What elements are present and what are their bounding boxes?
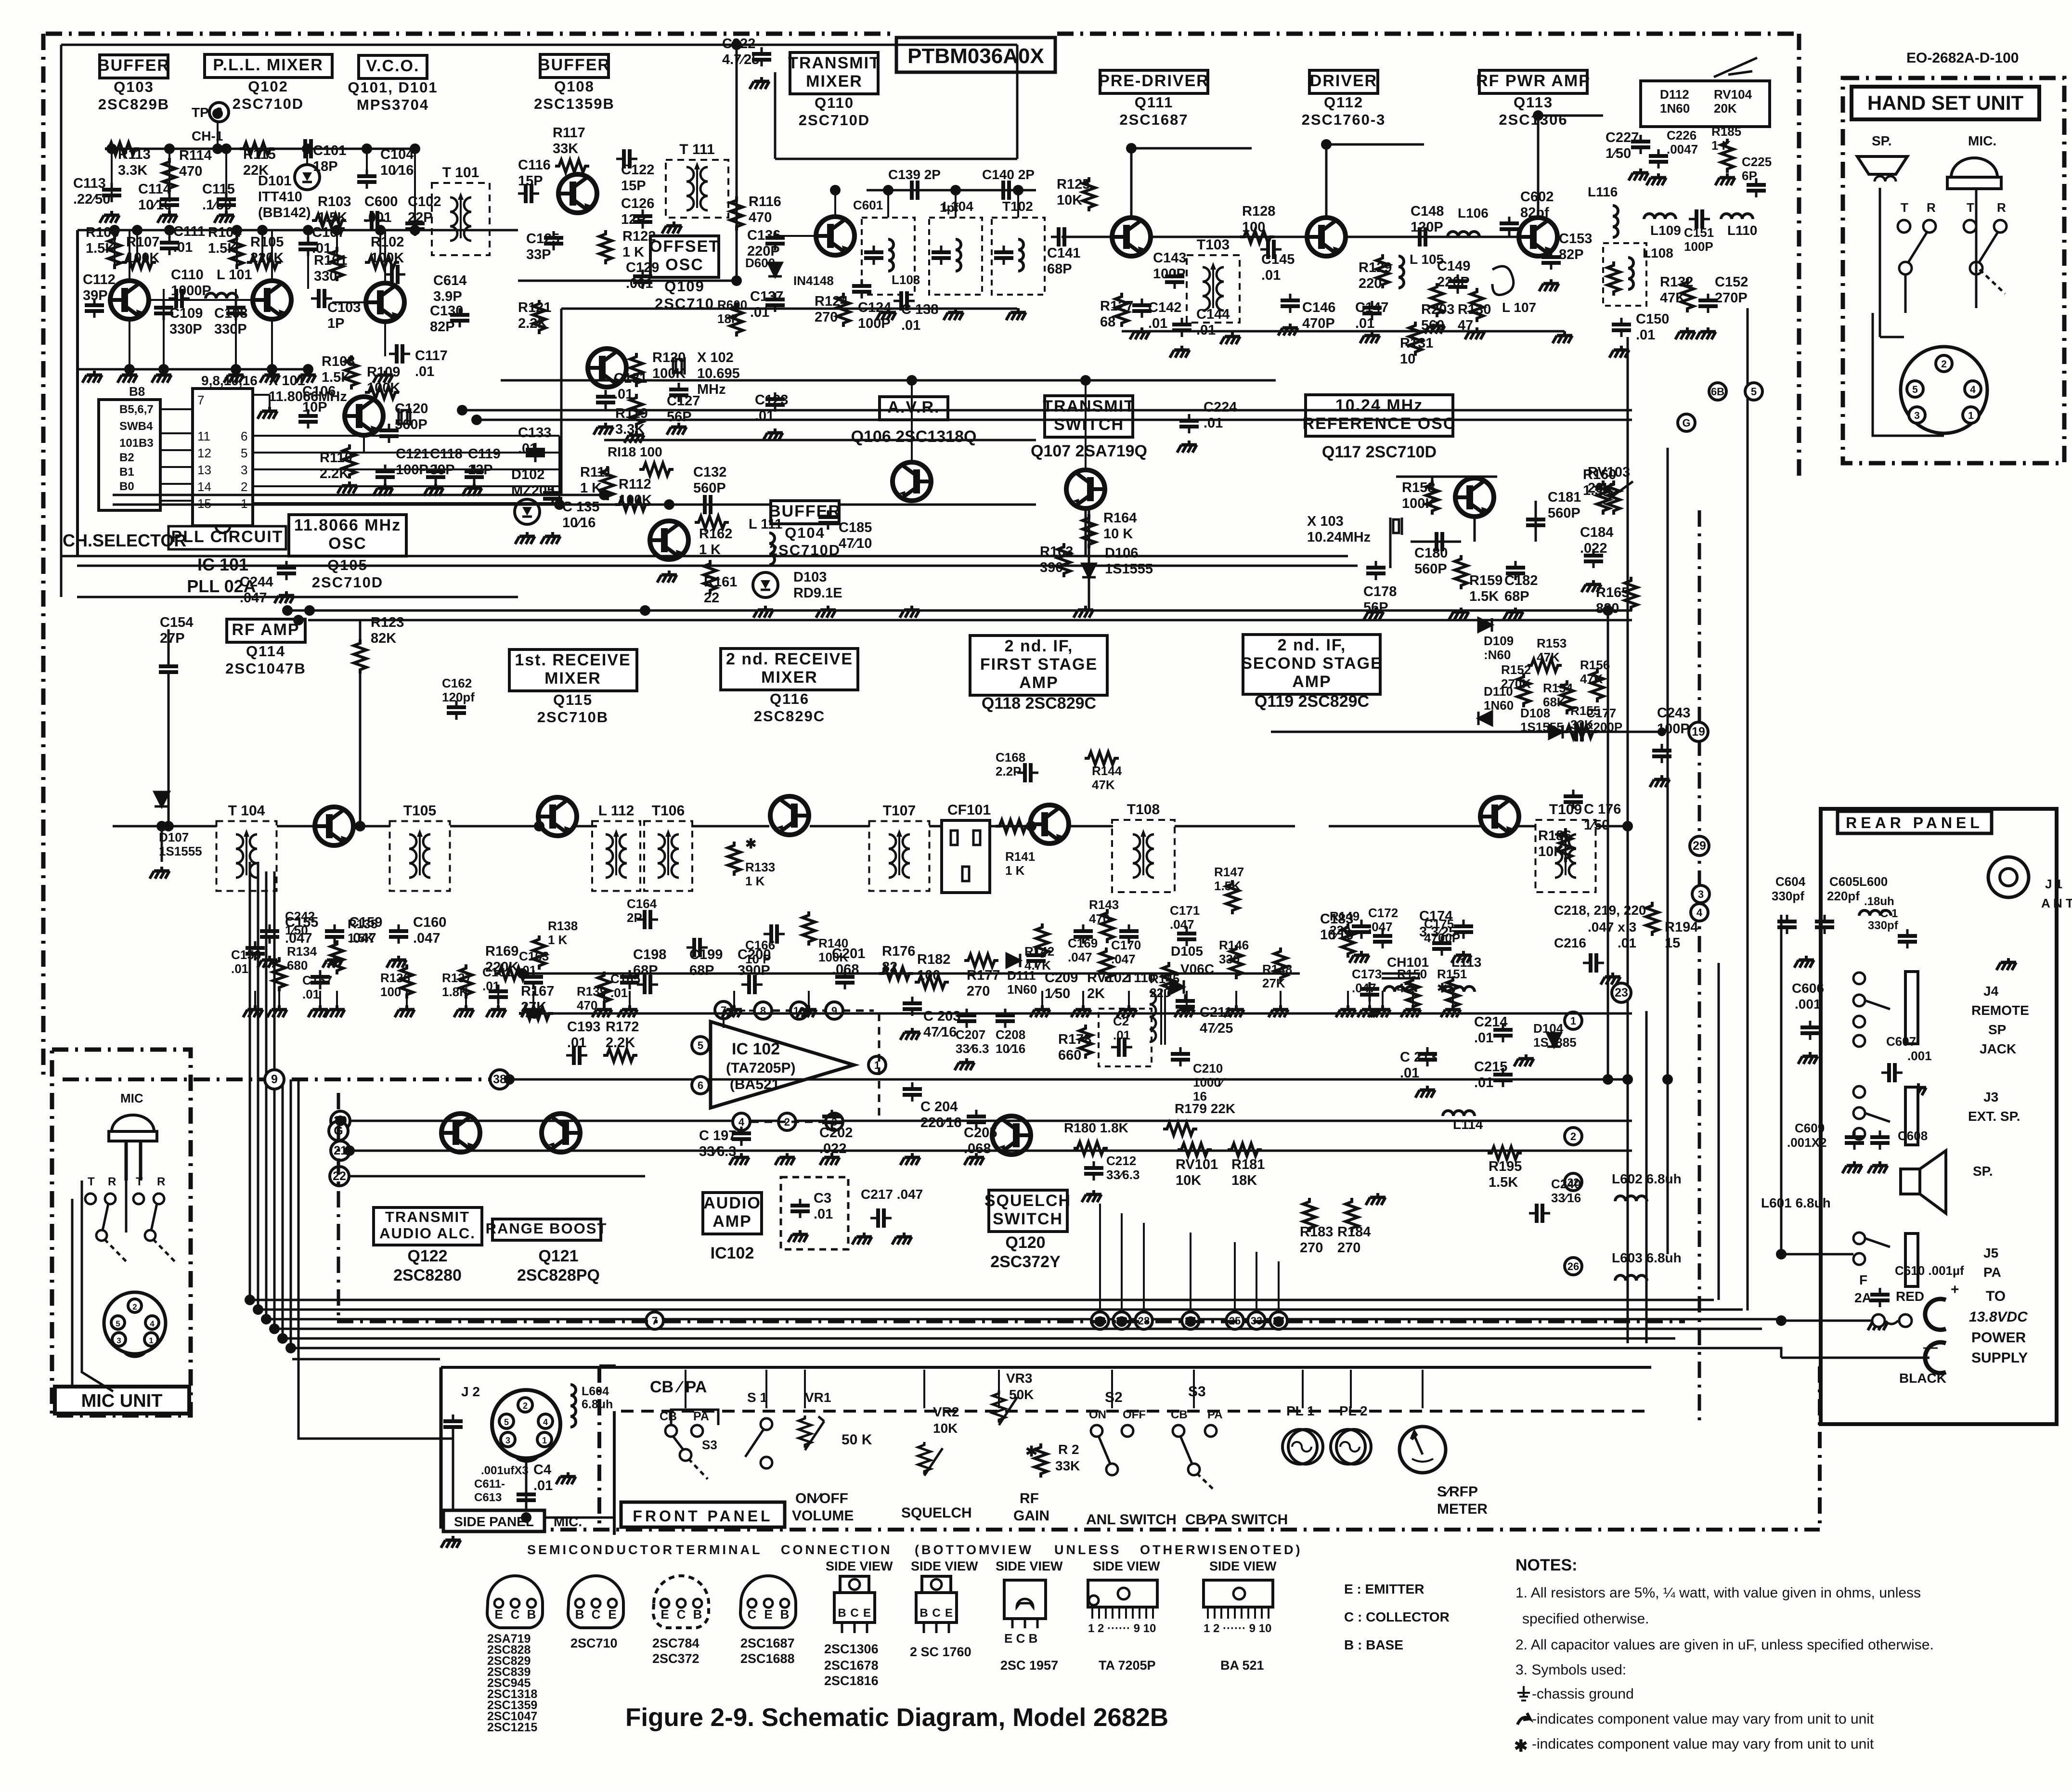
ground pll cap 2: [214, 211, 234, 223]
resistor R153: [1528, 659, 1562, 672]
svg-text:Q120: Q120: [1005, 1233, 1045, 1252]
svg-text:B5,6,7: B5,6,7: [119, 403, 154, 416]
handset speaker symbol: [1857, 156, 1907, 182]
ground R119: [624, 431, 644, 443]
J2 pin 1: [537, 1432, 552, 1447]
svg-text:PA: PA: [1207, 1408, 1223, 1421]
ground receive row 5: [454, 1005, 474, 1017]
resistor R180: [1074, 1142, 1108, 1155]
ground C123: [763, 428, 783, 441]
svg-text:Q118 2SC829C: Q118 2SC829C: [982, 694, 1096, 713]
junction dot 59: [355, 821, 365, 831]
front meter dash frame top: [599, 1364, 621, 1368]
capacitor C176: [1564, 790, 1583, 809]
svg-text:TRANSMIT: TRANSMIT: [788, 54, 881, 72]
capacitor C114: [160, 193, 179, 212]
FRONT PANEL title rect: [621, 1502, 785, 1527]
ground C204: [900, 1153, 920, 1165]
stage label RF AMP Q114: [225, 619, 306, 677]
ground C185: [816, 606, 836, 618]
ground C243: [1650, 775, 1670, 787]
resistor R143: [1101, 909, 1114, 943]
svg-text:C: C: [932, 1607, 940, 1620]
ground Q104: [657, 571, 677, 583]
avr rail 2: [462, 409, 1632, 412]
C180 wire: [1411, 541, 1461, 543]
J2 pin 3: [501, 1432, 515, 1447]
handset connector pin 3: [1909, 407, 1925, 423]
junction dot 33: [282, 605, 293, 616]
receive rail segment 12: [1518, 825, 1536, 828]
svg-text:Q104: Q104: [785, 524, 825, 541]
ground C609b: [1868, 1161, 1888, 1173]
svg-text:C610 .001µf: C610 .001µf: [1895, 1263, 1964, 1278]
svg-text:A N T: A N T: [2041, 896, 2072, 910]
terminal 38 left: [490, 1070, 509, 1089]
capacitor C182: [1506, 561, 1525, 580]
svg-text:CB ∕ PA: CB ∕ PA: [650, 1378, 707, 1396]
ALC box outline: [1641, 81, 1770, 127]
rear panel wire fuse: [1781, 1320, 1872, 1322]
buffer Q108 bus: [518, 280, 737, 282]
resistor R135: [331, 940, 343, 974]
capacitor C607 sym: [1881, 1063, 1903, 1082]
handset wire sw down: [1904, 274, 1907, 313]
svg-text:B8: B8: [129, 384, 145, 399]
capacitor C110: [168, 289, 190, 308]
resistor R203: [1431, 283, 1443, 317]
diode D111: [1007, 954, 1020, 967]
terminal feed 1: [1121, 1213, 1123, 1312]
svg-text:29: 29: [1693, 839, 1706, 853]
junction dot 4: [362, 143, 372, 154]
svg-text:MIC: MIC: [120, 1091, 143, 1105]
border right dash-dot: [1797, 34, 1801, 481]
terminal 25: [1226, 1312, 1243, 1329]
capacitor C150: [1612, 318, 1631, 337]
svg-text:MIC UNIT: MIC UNIT: [81, 1391, 163, 1411]
inductor L116: [1613, 206, 1618, 237]
junction dot 60: [163, 821, 174, 831]
junction dot 35: [304, 605, 315, 616]
svg-text:5: 5: [1912, 384, 1918, 395]
svg-text:23: 23: [1615, 986, 1628, 999]
IC102 pin 7: [715, 1001, 732, 1019]
svg-text:.001: .001: [1795, 997, 1821, 1012]
svg-text:.047 x 3: .047 x 3: [1588, 920, 1636, 934]
svg-text:C6143.9P: C6143.9P: [433, 273, 466, 304]
T111 drop: [736, 45, 738, 281]
svg-text:TERMINAL: TERMINAL: [676, 1543, 762, 1557]
diode D103 zener: [753, 572, 778, 597]
svg-text:C: C: [592, 1607, 601, 1622]
ground C3: [788, 1230, 808, 1242]
border top dash-dot right part: [1057, 32, 1799, 36]
CH selector to IC wire6: [160, 500, 193, 502]
svg-text:ON: ON: [1089, 1408, 1106, 1421]
svg-text:2SC1047B: 2SC1047B: [225, 660, 306, 677]
svg-text:SIDE VIEW: SIDE VIEW: [911, 1559, 978, 1573]
avr rail 3: [477, 419, 1632, 421]
svg-text:TO: TO: [1986, 1288, 2006, 1304]
mic unit connector pin 2: [128, 1299, 142, 1312]
junction dot 45: [344, 1145, 355, 1156]
junction dot 22: [599, 490, 609, 500]
cap in T102b tank: [994, 246, 1013, 265]
transistor Q102: [253, 281, 291, 319]
svg-text:VR1: VR1: [805, 1390, 831, 1405]
capacitor C137: [765, 293, 785, 312]
junction dot 58: [521, 1512, 531, 1523]
svg-text:specified otherwise.: specified otherwise.: [1522, 1611, 1649, 1627]
capacitor C2 sym: [1111, 1038, 1132, 1057]
svg-text:8: 8: [760, 1005, 766, 1017]
transistor Q115: [538, 797, 577, 836]
transformer T101: [432, 183, 490, 255]
diode D105: [1170, 980, 1184, 994]
receive rail segment 2: [352, 825, 390, 828]
svg-text:P.L.L. MIXER: P.L.L. MIXER: [213, 56, 323, 74]
tx rail a: [1062, 236, 1113, 238]
resistor R148: [1274, 947, 1287, 982]
ground receive row 21: [1401, 1005, 1421, 1017]
lamp PL1: [1282, 1429, 1323, 1464]
capacitor C185: [818, 510, 838, 530]
capacitor C3 sym: [790, 1199, 810, 1218]
rear panel wire J5: [1781, 1253, 1853, 1256]
junction dot 24: [731, 275, 742, 286]
detector rail y1520: [1271, 731, 1658, 733]
ground D102: [515, 532, 535, 544]
border left dash-dot: [41, 34, 46, 1079]
svg-text:E: E: [764, 1607, 772, 1622]
svg-text:C21233∕6.3: C21233∕6.3: [1106, 1154, 1140, 1182]
svg-text:E: E: [660, 1607, 669, 1622]
IC102 dash frame right: [878, 1013, 881, 1119]
transformer L112: [592, 821, 640, 891]
coil L104: [888, 239, 894, 271]
ground receive row 2: [308, 1005, 328, 1017]
junction dot 30: [1126, 143, 1137, 154]
CH selector to IC wire4: [160, 466, 193, 468]
capacitor C141: [1051, 227, 1072, 247]
C139 C140 row: [867, 189, 1036, 192]
resistor R131: [1409, 322, 1422, 356]
capacitor C103: [311, 289, 332, 308]
ground receive row 22: [1441, 1005, 1461, 1017]
svg-text:Q121: Q121: [538, 1247, 578, 1265]
svg-text:R180 1.8K: R180 1.8K: [1064, 1120, 1128, 1135]
svg-text:1st. RECEIVE: 1st. RECEIVE: [515, 651, 631, 669]
svg-text:2: 2: [1941, 359, 1947, 370]
junction dot 52: [1622, 1074, 1633, 1085]
resistor R183: [1303, 1198, 1316, 1232]
svg-text:SIDE VIEW: SIDE VIEW: [1093, 1559, 1160, 1573]
svg-text:Q110: Q110: [815, 94, 854, 111]
inductor L600 coil: [1859, 910, 1891, 916]
capacitor C173: [1360, 982, 1379, 1001]
svg-text:T106: T106: [652, 803, 685, 819]
junction dot 14: [375, 225, 386, 235]
svg-text:T103: T103: [1197, 237, 1230, 253]
capacitor C136: [765, 231, 785, 250]
svg-text:4: 4: [738, 1116, 745, 1128]
svg-text:L110: L110: [1727, 223, 1757, 238]
svg-text:C226.0047: C226.0047: [1667, 128, 1698, 156]
svg-text:E: E: [494, 1607, 503, 1622]
S2 switch: [1091, 1425, 1133, 1475]
resistor R110: [343, 444, 356, 479]
main vertical right B: [1667, 448, 1669, 1254]
fuse symbol: [1872, 1314, 1912, 1327]
svg-text:L104: L104: [943, 199, 973, 214]
front panel drop VR2: [923, 1370, 925, 1408]
junction dot 37: [1603, 605, 1613, 616]
svg-text:2SC1306: 2SC1306: [824, 1642, 879, 1656]
handset wire sp to conn: [1880, 336, 1904, 338]
resistor R181: [1228, 1143, 1262, 1156]
svg-text:J 2: J 2: [461, 1384, 480, 1399]
resistor R122: [599, 230, 612, 264]
capacitor C214: [1493, 1023, 1513, 1042]
svg-text:J3: J3: [1983, 1090, 1998, 1104]
resistor R124: [837, 293, 850, 327]
ground receive row 1: [267, 1005, 287, 1017]
ground C155: [258, 956, 277, 968]
power plug black hook: [1925, 1342, 1946, 1373]
junction dot 18: [231, 364, 241, 375]
svg-text:L109: L109: [1650, 223, 1681, 238]
svg-text:TP: TP: [192, 105, 209, 120]
capacitor C244: [277, 561, 296, 580]
ground receive stub 21: [1412, 991, 1414, 1005]
crystal X102: [673, 357, 685, 375]
transistor Q120: [992, 1116, 1031, 1155]
resistor R107: [122, 256, 156, 269]
pll vertical 17: [307, 255, 309, 289]
svg-text:C151100P: C151100P: [1684, 225, 1714, 254]
svg-text:PA: PA: [693, 1410, 709, 1423]
terminal 24: [1182, 1312, 1199, 1329]
svg-text:C2224.7∕25: C2224.7∕25: [722, 36, 759, 67]
cap in T102 tank: [932, 246, 951, 265]
svg-text:SP: SP: [1988, 1022, 2006, 1037]
front S1 switch: [745, 1418, 772, 1468]
ground pll row2 0: [82, 371, 102, 383]
junction dot 48: [1095, 1316, 1105, 1327]
resistor R2: [1035, 1443, 1047, 1478]
svg-text:+: +: [1951, 1282, 1959, 1298]
capacitor C208: [996, 1009, 1015, 1028]
tank top 0: [887, 190, 889, 218]
resistor R182: [915, 976, 949, 988]
capacitor C180: [1429, 532, 1450, 551]
svg-text:2SC1359B: 2SC1359B: [534, 95, 615, 112]
pinout 2SC1957 package: [1004, 1580, 1046, 1628]
svg-text:C181560P: C181560P: [1548, 490, 1581, 521]
svg-text:PA: PA: [1983, 1265, 2001, 1280]
stage label PLL CIRCUIT IC101: [168, 526, 286, 549]
capacitor C140: [996, 181, 1017, 200]
svg-text:C613: C613: [474, 1491, 502, 1504]
resistor R159: [1455, 555, 1467, 589]
svg-text:C124100P: C124100P: [858, 300, 891, 331]
capacitor C172: [1373, 929, 1392, 948]
capacitor C212: [1084, 1161, 1103, 1181]
mic unit switch 2: [133, 1194, 175, 1261]
svg-text:2SC829B: 2SC829B: [98, 96, 169, 113]
R164 D106 wire: [1088, 510, 1090, 610]
base row C110 L101: [164, 299, 231, 301]
junction dot 16: [124, 364, 135, 375]
svg-text:C 204220∕16: C 204220∕16: [920, 1099, 962, 1130]
terminal 1 rear: [1565, 1012, 1582, 1029]
svg-text:2SC 1957: 2SC 1957: [1000, 1658, 1058, 1673]
junction dot 28: [1013, 185, 1023, 195]
capacitor C240 sym: [1529, 1204, 1550, 1223]
junction dot 1: [164, 143, 175, 154]
RV101 pot: [1178, 1143, 1212, 1156]
terminal 6B: [1709, 383, 1726, 400]
mic unit harness: [82, 1281, 113, 1391]
svg-text:C132560P: C132560P: [693, 465, 726, 496]
ground C604: [1794, 956, 1814, 968]
diode D106: [1082, 564, 1096, 577]
stage label P.L.L. MIXER Q102: [205, 54, 332, 112]
capacitor C119: [465, 465, 484, 484]
svg-text:EO-2682A-D-100: EO-2682A-D-100: [1906, 50, 2019, 66]
T110 transformer: [1150, 989, 1165, 1045]
svg-text:C11410∕16: C11410∕16: [138, 182, 171, 213]
svg-text:2SC828PQ: 2SC828PQ: [517, 1266, 600, 1285]
svg-text:SEMICONDUCTOR: SEMICONDUCTOR: [527, 1543, 674, 1557]
IC101 right wire 4: [253, 502, 559, 504]
Q101 emitter down: [384, 321, 386, 356]
capacitor C121: [376, 465, 395, 484]
svg-text:5: 5: [116, 1319, 120, 1328]
stage label 11.8066MHz OSC Q105: [289, 515, 406, 591]
choke CH101 coil: [1384, 986, 1416, 992]
capacitor C609 sym a: [1845, 1130, 1864, 1150]
svg-text:C121100P: C121100P: [396, 446, 429, 478]
mixer row bus A: [113, 494, 604, 496]
RV103 pot: [1607, 480, 1620, 515]
svg-text:.18uh: .18uh: [1864, 895, 1894, 908]
ground C127: [667, 423, 686, 435]
ground receive row 18: [1336, 1005, 1356, 1017]
svg-text:C604: C604: [1775, 874, 1806, 889]
resistor R156: [1591, 668, 1604, 702]
svg-text:T 101: T 101: [442, 165, 479, 181]
resistor R152: [1517, 673, 1530, 707]
svg-text:E C B: E C B: [1004, 1631, 1037, 1646]
ground C213: [1415, 1086, 1435, 1098]
junction dot 62: [534, 821, 544, 831]
resistor R114: [163, 158, 176, 192]
junction dot 13: [332, 225, 342, 235]
transformer T103: [1187, 255, 1240, 323]
resistor R146: [1230, 945, 1243, 979]
svg-text:CH.SELECTOR: CH.SELECTOR: [63, 531, 186, 550]
ground IC101 top: [258, 407, 277, 419]
ground C183: [1349, 951, 1369, 963]
svg-text:2SC710D: 2SC710D: [233, 95, 304, 112]
capacitor C117: [389, 344, 410, 363]
ground receive stub 1: [278, 991, 280, 1005]
terminal 13: [1091, 1312, 1109, 1329]
Q110 base left: [775, 235, 817, 237]
stage label 2nd IF SECOND STAGE AMP Q119: [1241, 635, 1383, 694]
svg-text:C609: C609: [1795, 1121, 1825, 1135]
R123 drop: [359, 620, 362, 640]
svg-text:9: 9: [831, 1005, 837, 1017]
svg-text:.001ufX3: .001ufX3: [481, 1464, 529, 1477]
resistor R167: [519, 1007, 553, 1020]
svg-text:R140100K: R140100K: [818, 936, 848, 964]
stage label RF PWR AMP Q113: [1476, 70, 1591, 128]
ground receive stub 8: [603, 991, 605, 1005]
capacitor C118: [426, 465, 445, 484]
svg-text:✱: ✱: [1514, 1737, 1528, 1755]
ground R185: [1715, 173, 1735, 185]
ground receive row 9: [618, 1005, 637, 1017]
tank ground 2: [1006, 308, 1026, 320]
resistor R104: [231, 235, 243, 269]
IC101 right wire 2: [253, 468, 559, 470]
tank ground 0: [876, 308, 896, 320]
svg-text:ON∕OFF: ON∕OFF: [795, 1491, 848, 1506]
svg-text:-indicates component value may: -indicates component value may vary from…: [1532, 1736, 1874, 1752]
resistor R184: [1346, 1198, 1358, 1232]
capacitor C166: [764, 924, 785, 944]
capacitor C162: [447, 701, 466, 720]
handset switch 1: [1898, 220, 1936, 274]
svg-text:IC102: IC102: [711, 1244, 754, 1262]
junction dot 23: [664, 499, 674, 510]
resistor R161: [704, 560, 716, 594]
diode D108: [1549, 725, 1563, 739]
ground receive stub 22: [1452, 991, 1454, 1005]
IC101 top wire v: [269, 395, 271, 407]
ground D103: [753, 606, 773, 618]
J2 pin 2: [518, 1398, 532, 1412]
resistor R600: [730, 302, 743, 337]
svg-text:SP.: SP.: [1872, 133, 1892, 148]
handset wire mic down: [1975, 189, 1978, 308]
svg-text:RED: RED: [1896, 1289, 1924, 1304]
J4 jack: [1853, 972, 1918, 1047]
junction dot 47: [529, 1008, 540, 1019]
tx ground rail: [1122, 330, 1565, 333]
ground receive row 0: [243, 1005, 263, 1017]
audio area rail 20: [350, 1120, 1632, 1122]
junction dot 44: [335, 1116, 346, 1126]
svg-text:T 104: T 104: [228, 803, 265, 819]
SP speaker symbol: [1901, 1151, 1946, 1213]
resistor R147: [1226, 880, 1239, 914]
inductor L603 coil: [1615, 1275, 1647, 1281]
stage label 2nd RECEIVE MIXER Q116: [721, 649, 858, 725]
svg-text:10K: 10K: [933, 1421, 958, 1436]
svg-text:B: B: [838, 1607, 846, 1620]
ground J1: [1996, 958, 2016, 970]
svg-text:50K: 50K: [1009, 1387, 1034, 1402]
resistor R164: [1083, 514, 1095, 548]
junction dot 27: [950, 185, 961, 195]
SIDE PANEL title rect: [443, 1510, 544, 1531]
terminal 26: [1565, 1258, 1582, 1275]
capacitor C226: [1649, 149, 1668, 169]
